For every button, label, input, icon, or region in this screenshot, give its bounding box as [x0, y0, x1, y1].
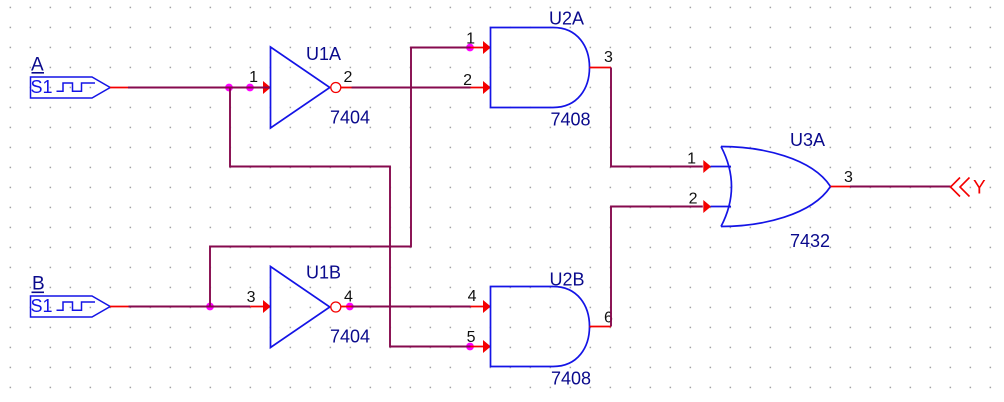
- svg-text:2: 2: [689, 191, 698, 208]
- svg-text:S1: S1: [31, 77, 53, 97]
- svg-text:4: 4: [344, 289, 353, 306]
- inverter U1A: [271, 47, 341, 128]
- svg-text:B: B: [32, 274, 45, 295]
- input arrow U2A pin 1: [483, 41, 491, 54]
- pin lead U2A pin 1: [471, 47, 491, 49]
- pin line U3A pin 1: [711, 166, 732, 168]
- svg-text:U3A: U3A: [790, 130, 825, 150]
- input arrow U1A pin 1: [263, 81, 271, 94]
- wire A row: [128, 87, 271, 89]
- svg-text:5: 5: [467, 329, 476, 346]
- svg-text:7408: 7408: [551, 110, 591, 130]
- wire A branch to U2B pin 5: [230, 88, 471, 347]
- pin lead U2B pin 5: [471, 346, 491, 348]
- svg-text:U1B: U1B: [306, 263, 341, 283]
- svg-text:U1A: U1A: [306, 44, 341, 64]
- inverter U1B: [271, 267, 341, 348]
- net label A: [31, 55, 44, 76]
- junction on wire A (second): [246, 84, 254, 92]
- input arrow U1B pin 3: [263, 300, 271, 313]
- AND gate U2B: [491, 287, 590, 367]
- OR gate U3A: [721, 147, 831, 227]
- junction on wire A: [225, 84, 233, 92]
- wire U1A out to U2A pin 2: [352, 87, 471, 89]
- svg-text:U2A: U2A: [549, 9, 584, 29]
- wire U2B out to U3A pin 2: [611, 207, 703, 327]
- AND gate U2A: [491, 28, 590, 108]
- svg-text:3: 3: [247, 289, 256, 306]
- signal source S1 (input B): [31, 296, 111, 317]
- pin lead U1B input: [250, 306, 270, 308]
- svg-text:7432: 7432: [790, 231, 830, 251]
- output connector chevrons: [951, 178, 970, 197]
- svg-text:7408: 7408: [551, 369, 591, 389]
- svg-text:2: 2: [344, 69, 353, 86]
- pin stub U1A output: [341, 87, 352, 89]
- svg-text:1: 1: [466, 31, 475, 48]
- pin stub of S1 (A): [110, 87, 128, 89]
- svg-text:1: 1: [249, 69, 258, 86]
- svg-text:7404: 7404: [330, 108, 370, 128]
- pin line U3A pin 2: [711, 206, 732, 208]
- input arrow U3A pin 1: [703, 160, 711, 173]
- svg-text:7404: 7404: [330, 327, 370, 347]
- pin stub U1B output: [341, 306, 352, 308]
- junction on U2A pin1 wire: [466, 44, 474, 52]
- wire B branch to U2A pin 1: [210, 48, 471, 307]
- pin stub U2A output: [590, 67, 612, 69]
- pin stub U3A output: [831, 186, 851, 188]
- junction on wire B: [206, 303, 214, 311]
- input arrow U2A pin 2: [483, 81, 491, 94]
- svg-text:3: 3: [604, 49, 613, 66]
- svg-text:Y: Y: [973, 178, 986, 199]
- wire U2A out to U3A pin 1: [611, 68, 703, 167]
- pin stub of S1 (B): [110, 306, 129, 308]
- svg-text:3: 3: [844, 169, 853, 186]
- net label B: [32, 274, 45, 295]
- wire Y output: [850, 186, 951, 188]
- pin stub U2B output: [590, 326, 612, 328]
- wire B row: [129, 306, 251, 308]
- input arrow U2B pin 5: [483, 340, 491, 353]
- svg-text:1: 1: [687, 151, 696, 168]
- junction at U1B output: [346, 303, 354, 311]
- signal source S1 (input A): [31, 77, 111, 98]
- svg-text:S1: S1: [31, 296, 53, 316]
- input arrow U3A pin 2: [703, 200, 711, 213]
- svg-text:4: 4: [468, 288, 477, 305]
- pin lead U2B pin 4: [471, 306, 491, 308]
- input arrow U2B pin 4: [483, 300, 491, 313]
- svg-text:U2B: U2B: [550, 270, 585, 290]
- wire U1B out to U2B pin 4: [352, 306, 471, 308]
- pin lead U2A pin 2: [471, 87, 491, 89]
- svg-text:2: 2: [463, 72, 472, 89]
- junction on U2B pin5 wire: [466, 343, 474, 351]
